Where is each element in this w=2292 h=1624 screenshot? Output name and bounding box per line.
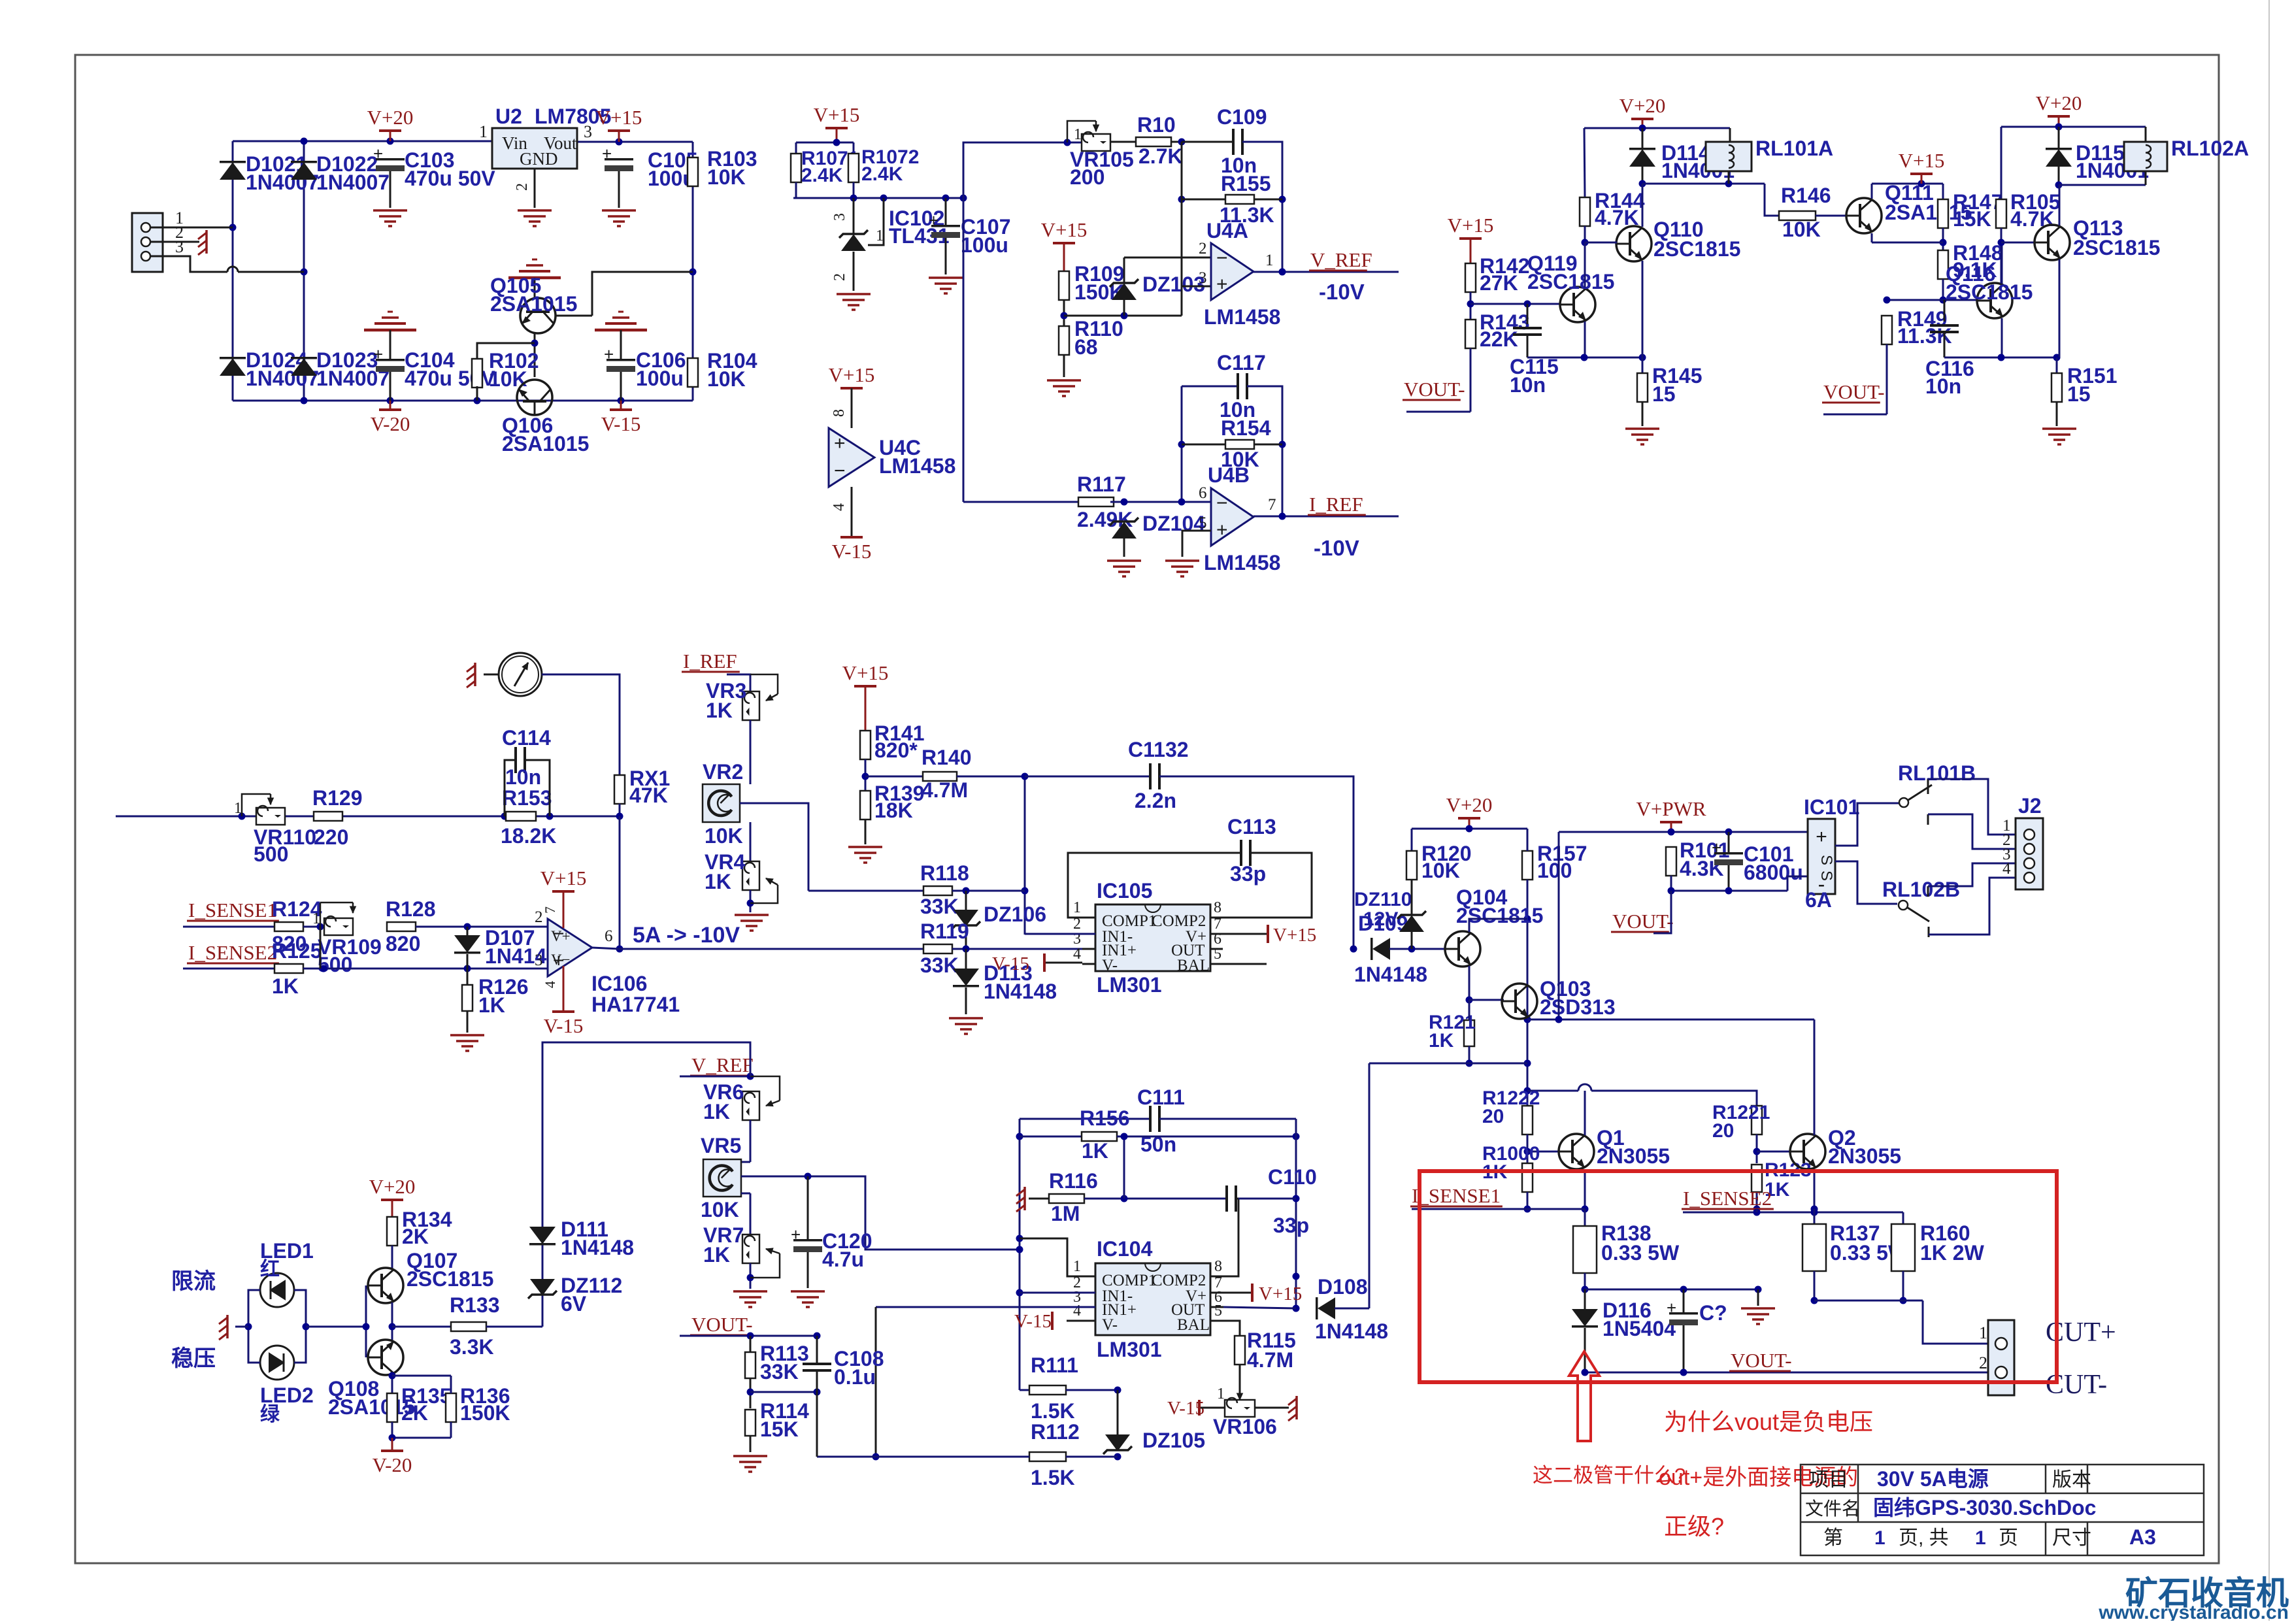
svg-text:I_REF: I_REF (1309, 493, 1363, 516)
svg-text:2SC1815: 2SC1815 (2073, 236, 2160, 259)
svg-text:V-15: V-15 (832, 540, 872, 563)
svg-text:6: 6 (605, 927, 613, 945)
svg-text:1K: 1K (705, 870, 731, 893)
svg-text:LM301: LM301 (1097, 973, 1162, 997)
svg-text:1: 1 (1074, 126, 1082, 143)
svg-text:1: 1 (234, 800, 242, 817)
svg-text:0.1u: 0.1u (834, 1365, 876, 1389)
svg-text:33K: 33K (920, 953, 959, 977)
svg-text:DZ105: DZ105 (1142, 1429, 1205, 1452)
svg-text:V+20: V+20 (2036, 91, 2082, 114)
svg-text:V+15: V+15 (1273, 925, 1316, 946)
svg-text:10K: 10K (1782, 218, 1821, 241)
svg-text:IC104: IC104 (1097, 1237, 1153, 1261)
svg-text:1K: 1K (703, 1243, 730, 1267)
svg-text:+: + (1216, 519, 1228, 540)
svg-text:-10V: -10V (1319, 280, 1365, 304)
svg-text:V+15: V+15 (1448, 214, 1494, 237)
svg-text:COMP1: COMP1 (1102, 912, 1156, 930)
svg-text:I_SENSE1: I_SENSE1 (1412, 1184, 1501, 1207)
svg-text:4: 4 (831, 503, 848, 511)
svg-text:1: 1 (1217, 1385, 1225, 1402)
svg-text:V−: V− (551, 952, 571, 968)
svg-text:DZ103: DZ103 (1142, 273, 1205, 296)
svg-text:4.7M: 4.7M (1247, 1348, 1293, 1372)
svg-text:33K: 33K (920, 895, 959, 918)
svg-text:15: 15 (2067, 382, 2091, 406)
svg-text:6800u: 6800u (1744, 861, 1803, 884)
svg-text:C117: C117 (1217, 351, 1266, 374)
svg-text:1: 1 (312, 910, 320, 927)
svg-text:150K: 150K (460, 1401, 510, 1425)
svg-text:2N3055: 2N3055 (1828, 1144, 1901, 1168)
svg-text:22K: 22K (1480, 327, 1518, 351)
svg-text:33p: 33p (1273, 1214, 1309, 1237)
svg-text:2SC1815: 2SC1815 (1653, 237, 1740, 261)
svg-text:500: 500 (254, 842, 288, 866)
svg-text:1: 1 (479, 122, 488, 141)
svg-text:2: 2 (1199, 240, 1207, 257)
svg-text:R128: R128 (386, 897, 436, 921)
svg-text:IC101: IC101 (1804, 795, 1859, 819)
svg-text:1.5K: 1.5K (1031, 1399, 1075, 1423)
svg-text:S: S (1818, 855, 1835, 865)
svg-text:版本: 版本 (2052, 1469, 2091, 1491)
svg-text:2: 2 (514, 183, 531, 191)
svg-text:2: 2 (831, 273, 848, 281)
svg-text:VOUT-: VOUT- (1823, 380, 1885, 403)
svg-text:4: 4 (1073, 946, 1081, 963)
svg-text:4.7K: 4.7K (2010, 207, 2055, 231)
svg-text:15: 15 (1652, 382, 1676, 406)
svg-text:1N4148: 1N4148 (1315, 1319, 1388, 1343)
svg-text:R129: R129 (312, 786, 363, 810)
svg-text:V-20: V-20 (371, 412, 410, 435)
svg-text:限流: 限流 (171, 1269, 216, 1294)
svg-text:4: 4 (542, 981, 558, 988)
svg-text:20: 20 (1482, 1106, 1504, 1127)
svg-text:I_SENSE2: I_SENSE2 (188, 941, 277, 964)
svg-text:第: 第 (1823, 1527, 1843, 1549)
svg-text:2.2n: 2.2n (1135, 789, 1176, 812)
svg-text:文件名: 文件名 (1805, 1499, 1860, 1519)
svg-text:-: - (1818, 872, 1825, 896)
svg-text:IC106: IC106 (591, 972, 647, 995)
svg-text:V+15: V+15 (1899, 149, 1945, 172)
svg-text:COMP1: COMP1 (1102, 1272, 1156, 1289)
svg-text:IC105: IC105 (1097, 879, 1152, 903)
svg-text:J2: J2 (2018, 794, 2042, 818)
svg-text:C114: C114 (502, 726, 551, 750)
svg-text:1: 1 (1073, 1258, 1081, 1275)
svg-text:820: 820 (386, 932, 420, 955)
svg-text:V_REF: V_REF (691, 1053, 754, 1076)
svg-text:R156: R156 (1080, 1106, 1130, 1130)
svg-text:GND: GND (520, 149, 558, 169)
svg-text:33K: 33K (760, 1360, 799, 1384)
svg-text:6: 6 (1199, 484, 1207, 502)
svg-text:47K: 47K (629, 784, 668, 807)
svg-text:10K: 10K (707, 367, 746, 391)
svg-text:68: 68 (1074, 335, 1098, 359)
svg-text:100: 100 (1537, 859, 1572, 882)
svg-text:V-15: V-15 (1014, 1311, 1052, 1332)
svg-text:10n: 10n (505, 765, 541, 789)
svg-text:V+20: V+20 (1619, 94, 1666, 117)
svg-text:R140: R140 (922, 746, 972, 769)
svg-text:VOUT-: VOUT- (691, 1313, 753, 1336)
svg-text:33p: 33p (1230, 862, 1266, 886)
svg-text:1N4007: 1N4007 (316, 171, 390, 194)
svg-text:1N4148: 1N4148 (1354, 963, 1427, 986)
svg-text:页, 共: 页, 共 (1899, 1527, 1949, 1549)
svg-text:470u 50V: 470u 50V (405, 167, 495, 190)
svg-text:1: 1 (876, 227, 884, 244)
svg-text:1M: 1M (1051, 1202, 1080, 1225)
svg-text:C109: C109 (1217, 105, 1267, 129)
svg-text:5: 5 (1214, 1302, 1222, 1319)
svg-text:820*: 820* (874, 738, 918, 762)
svg-text:2SA1015: 2SA1015 (490, 292, 577, 316)
svg-text:BAL: BAL (1177, 957, 1210, 974)
svg-text:V+15: V+15 (842, 661, 889, 684)
svg-text:2N3055: 2N3055 (1597, 1144, 1670, 1168)
svg-text:1: 1 (1975, 1527, 1986, 1549)
svg-text:-10V: -10V (1314, 536, 1359, 560)
svg-text:1: 1 (1265, 252, 1274, 269)
svg-text:D108: D108 (1318, 1275, 1368, 1299)
svg-text:0.33 5W: 0.33 5W (1601, 1241, 1680, 1265)
svg-text:红: 红 (260, 1259, 280, 1280)
svg-text:LM1458: LM1458 (1204, 305, 1280, 329)
svg-text:HA17741: HA17741 (591, 993, 680, 1016)
svg-text:R111: R111 (1031, 1353, 1078, 1377)
svg-text:−: − (1216, 247, 1228, 269)
svg-text:RL102A: RL102A (2171, 137, 2249, 160)
svg-text:V-: V- (1102, 957, 1118, 974)
svg-text:COMP2: COMP2 (1152, 912, 1206, 930)
svg-text:V-15: V-15 (544, 1014, 584, 1037)
svg-text:www.crystalradio.cn: www.crystalradio.cn (2098, 1602, 2289, 1621)
svg-text:U4A: U4A (1206, 219, 1248, 242)
svg-text:8: 8 (831, 409, 848, 417)
svg-text:DZ110: DZ110 (1354, 889, 1412, 910)
svg-text:VR5: VR5 (701, 1134, 741, 1157)
svg-text:1K: 1K (272, 974, 299, 998)
svg-text:R125: R125 (272, 939, 322, 963)
svg-text:4: 4 (1073, 1302, 1081, 1319)
svg-text:R116: R116 (1049, 1169, 1098, 1193)
svg-text:4.7u: 4.7u (822, 1248, 864, 1271)
svg-text:R10: R10 (1137, 113, 1176, 137)
svg-text:500: 500 (318, 953, 352, 976)
svg-text:V+15: V+15 (1259, 1284, 1302, 1304)
svg-text:LM301: LM301 (1097, 1338, 1162, 1361)
svg-text:2.4K: 2.4K (801, 165, 843, 186)
svg-text:1.5K: 1.5K (1031, 1466, 1075, 1489)
svg-text:绿: 绿 (260, 1404, 280, 1425)
svg-text:RL102B: RL102B (1882, 878, 1960, 901)
svg-text:2SC1815: 2SC1815 (407, 1267, 493, 1291)
svg-text:+: + (1816, 826, 1827, 848)
svg-text:220: 220 (314, 825, 348, 849)
svg-text:V-: V- (1102, 1316, 1118, 1334)
svg-text:2K: 2K (401, 1401, 428, 1425)
svg-text:15K: 15K (1953, 207, 1991, 231)
svg-text:4: 4 (2002, 860, 2011, 878)
svg-text:VR106: VR106 (1213, 1415, 1277, 1438)
svg-text:10K: 10K (705, 824, 743, 848)
svg-text:1K: 1K (703, 1100, 730, 1123)
svg-text:1N5404: 1N5404 (1603, 1317, 1676, 1340)
svg-text:V+15: V+15 (540, 867, 587, 889)
svg-text:R133: R133 (450, 1293, 500, 1317)
svg-text:10n: 10n (1925, 374, 1961, 398)
svg-text:20: 20 (1712, 1120, 1734, 1142)
svg-text:DZ106: DZ106 (984, 903, 1046, 926)
svg-text:I_REF: I_REF (683, 650, 737, 672)
svg-text:2SC1815: 2SC1815 (1527, 270, 1614, 293)
svg-text:8: 8 (1214, 1258, 1222, 1275)
svg-text:C?: C? (1699, 1301, 1727, 1325)
svg-text:−: − (834, 460, 846, 482)
svg-text:VOUT-: VOUT- (1731, 1349, 1792, 1372)
svg-text:V+PWR: V+PWR (1636, 797, 1706, 820)
svg-text:+: + (1216, 274, 1228, 295)
svg-text:为什么vout是负电压: 为什么vout是负电压 (1664, 1408, 1873, 1435)
svg-text:页: 页 (1999, 1527, 2018, 1549)
svg-text:V-20: V-20 (373, 1453, 412, 1476)
svg-text:R155: R155 (1221, 172, 1271, 195)
svg-text:2SA1015: 2SA1015 (502, 432, 589, 456)
svg-text:正级?: 正级? (1664, 1513, 1724, 1540)
svg-text:R154: R154 (1221, 416, 1271, 440)
svg-text:7: 7 (542, 906, 558, 914)
svg-text:2SC1815: 2SC1815 (1946, 280, 2033, 304)
svg-text:30V 5A电源: 30V 5A电源 (1877, 1467, 1989, 1491)
svg-text:I_SENSE1: I_SENSE1 (188, 899, 277, 921)
svg-text:1: 1 (1979, 1323, 1987, 1342)
svg-text:1: 1 (1874, 1527, 1885, 1549)
svg-text:C1132: C1132 (1128, 738, 1189, 761)
svg-text:R119: R119 (920, 920, 969, 943)
svg-text:R146: R146 (1781, 184, 1831, 207)
svg-text:V_REF: V_REF (1310, 248, 1372, 271)
svg-text:DZ104: DZ104 (1142, 512, 1205, 535)
svg-text:R117: R117 (1077, 472, 1126, 496)
svg-text:1K: 1K (706, 699, 733, 722)
svg-text:1: 1 (1073, 899, 1081, 916)
svg-text:C111: C111 (1137, 1085, 1185, 1109)
svg-text:尺寸: 尺寸 (2052, 1527, 2091, 1549)
svg-text:+: + (834, 433, 846, 454)
svg-text:7: 7 (1268, 496, 1276, 514)
svg-text:10n: 10n (1510, 373, 1546, 397)
svg-text:3: 3 (1199, 269, 1207, 287)
svg-text:18K: 18K (874, 799, 913, 822)
svg-text:COMP2: COMP2 (1152, 1272, 1206, 1289)
svg-text:VR2: VR2 (703, 760, 743, 784)
svg-text:V+15: V+15 (596, 106, 642, 129)
svg-text:3.3K: 3.3K (450, 1335, 494, 1359)
svg-text:V+15: V+15 (829, 363, 875, 386)
svg-text:200: 200 (1070, 165, 1104, 189)
svg-text:1K: 1K (1082, 1139, 1108, 1163)
svg-text:3: 3 (584, 122, 592, 141)
svg-text:3: 3 (535, 952, 543, 969)
svg-text:V+20: V+20 (367, 106, 414, 129)
svg-text:R112: R112 (1031, 1420, 1080, 1444)
svg-text:27K: 27K (1480, 271, 1518, 295)
svg-text:R153: R153 (502, 786, 552, 810)
svg-text:R118: R118 (920, 861, 969, 885)
svg-text:VOUT-: VOUT- (1612, 910, 1674, 933)
svg-text:3: 3 (175, 237, 184, 256)
svg-text:6V: 6V (561, 1292, 587, 1316)
svg-text:V-15: V-15 (601, 412, 641, 435)
svg-text:V+20: V+20 (1446, 793, 1493, 816)
svg-text:1N4148: 1N4148 (984, 980, 1057, 1003)
svg-text:10K: 10K (701, 1198, 739, 1221)
svg-text:2: 2 (1979, 1353, 1987, 1372)
svg-text:RL101B: RL101B (1898, 761, 1976, 785)
svg-text:U4B: U4B (1208, 463, 1250, 487)
svg-text:2.7K: 2.7K (1138, 144, 1183, 168)
svg-text:LM1458: LM1458 (1204, 551, 1280, 574)
svg-text:U2: U2 (495, 105, 522, 128)
svg-text:LM1458: LM1458 (879, 454, 955, 478)
svg-text:C110: C110 (1268, 1165, 1317, 1189)
svg-text:8: 8 (1214, 899, 1221, 916)
svg-text:12V: 12V (1363, 908, 1398, 930)
svg-text:项目: 项目 (1809, 1469, 1848, 1491)
svg-text:1K: 1K (478, 993, 505, 1017)
svg-text:1K: 1K (1429, 1030, 1454, 1052)
svg-text:VOUT-: VOUT- (1404, 378, 1465, 401)
svg-text:5: 5 (1199, 514, 1207, 532)
svg-text:100u: 100u (636, 367, 684, 390)
svg-text:V+: V+ (551, 928, 571, 944)
svg-text:18.2K: 18.2K (501, 824, 556, 848)
svg-text:V+20: V+20 (369, 1175, 416, 1198)
svg-text:RL101A: RL101A (1755, 137, 1833, 160)
svg-text:10K: 10K (1421, 859, 1460, 882)
svg-text:4.7M: 4.7M (922, 778, 968, 802)
svg-text:BAL: BAL (1177, 1316, 1210, 1334)
svg-text:1N4148: 1N4148 (561, 1236, 634, 1259)
svg-text:10K: 10K (707, 165, 746, 189)
svg-text:稳压: 稳压 (171, 1346, 216, 1371)
svg-text:2K: 2K (402, 1225, 429, 1248)
svg-text:C113: C113 (1227, 815, 1276, 838)
svg-text:1K 2W: 1K 2W (1920, 1241, 1985, 1265)
svg-text:I_SENSE2: I_SENSE2 (1683, 1187, 1772, 1210)
svg-text:固纬GPS-3030.SchDoc: 固纬GPS-3030.SchDoc (1873, 1496, 2096, 1519)
svg-text:V+15: V+15 (814, 103, 860, 126)
svg-text:3: 3 (831, 213, 848, 221)
svg-text:V-15: V-15 (992, 953, 1029, 974)
svg-text:2.4K: 2.4K (861, 163, 903, 185)
svg-text:−: − (1216, 493, 1228, 514)
svg-text:V+15: V+15 (1041, 218, 1088, 241)
svg-text:5A -> -10V: 5A -> -10V (633, 923, 740, 948)
svg-text:100u: 100u (961, 233, 1008, 257)
svg-text:2SD313: 2SD313 (1540, 995, 1616, 1019)
svg-text:15K: 15K (760, 1417, 799, 1441)
svg-text:5: 5 (1214, 946, 1221, 963)
svg-text:A3: A3 (2129, 1525, 2156, 1549)
